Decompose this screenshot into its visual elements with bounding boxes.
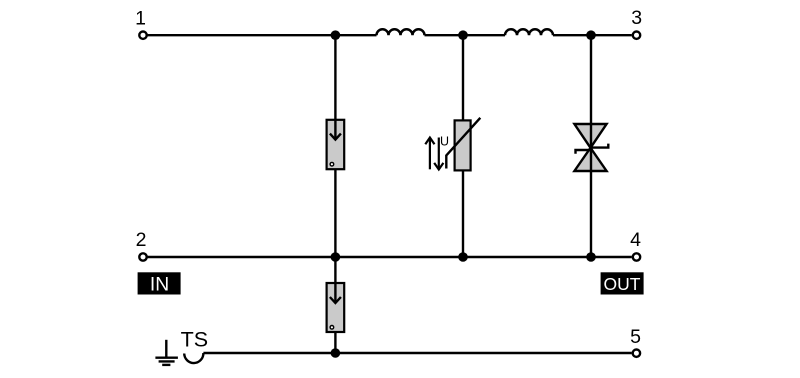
svg-text:2: 2	[136, 229, 147, 251]
svg-text:OUT: OUT	[604, 274, 641, 294]
svg-text:1: 1	[135, 8, 146, 30]
svg-text:IN: IN	[150, 274, 169, 295]
svg-text:5: 5	[630, 326, 641, 348]
svg-text:3: 3	[631, 7, 642, 29]
svg-text:TS: TS	[181, 328, 208, 352]
svg-text:4: 4	[630, 229, 641, 251]
svg-text:U: U	[440, 135, 449, 149]
